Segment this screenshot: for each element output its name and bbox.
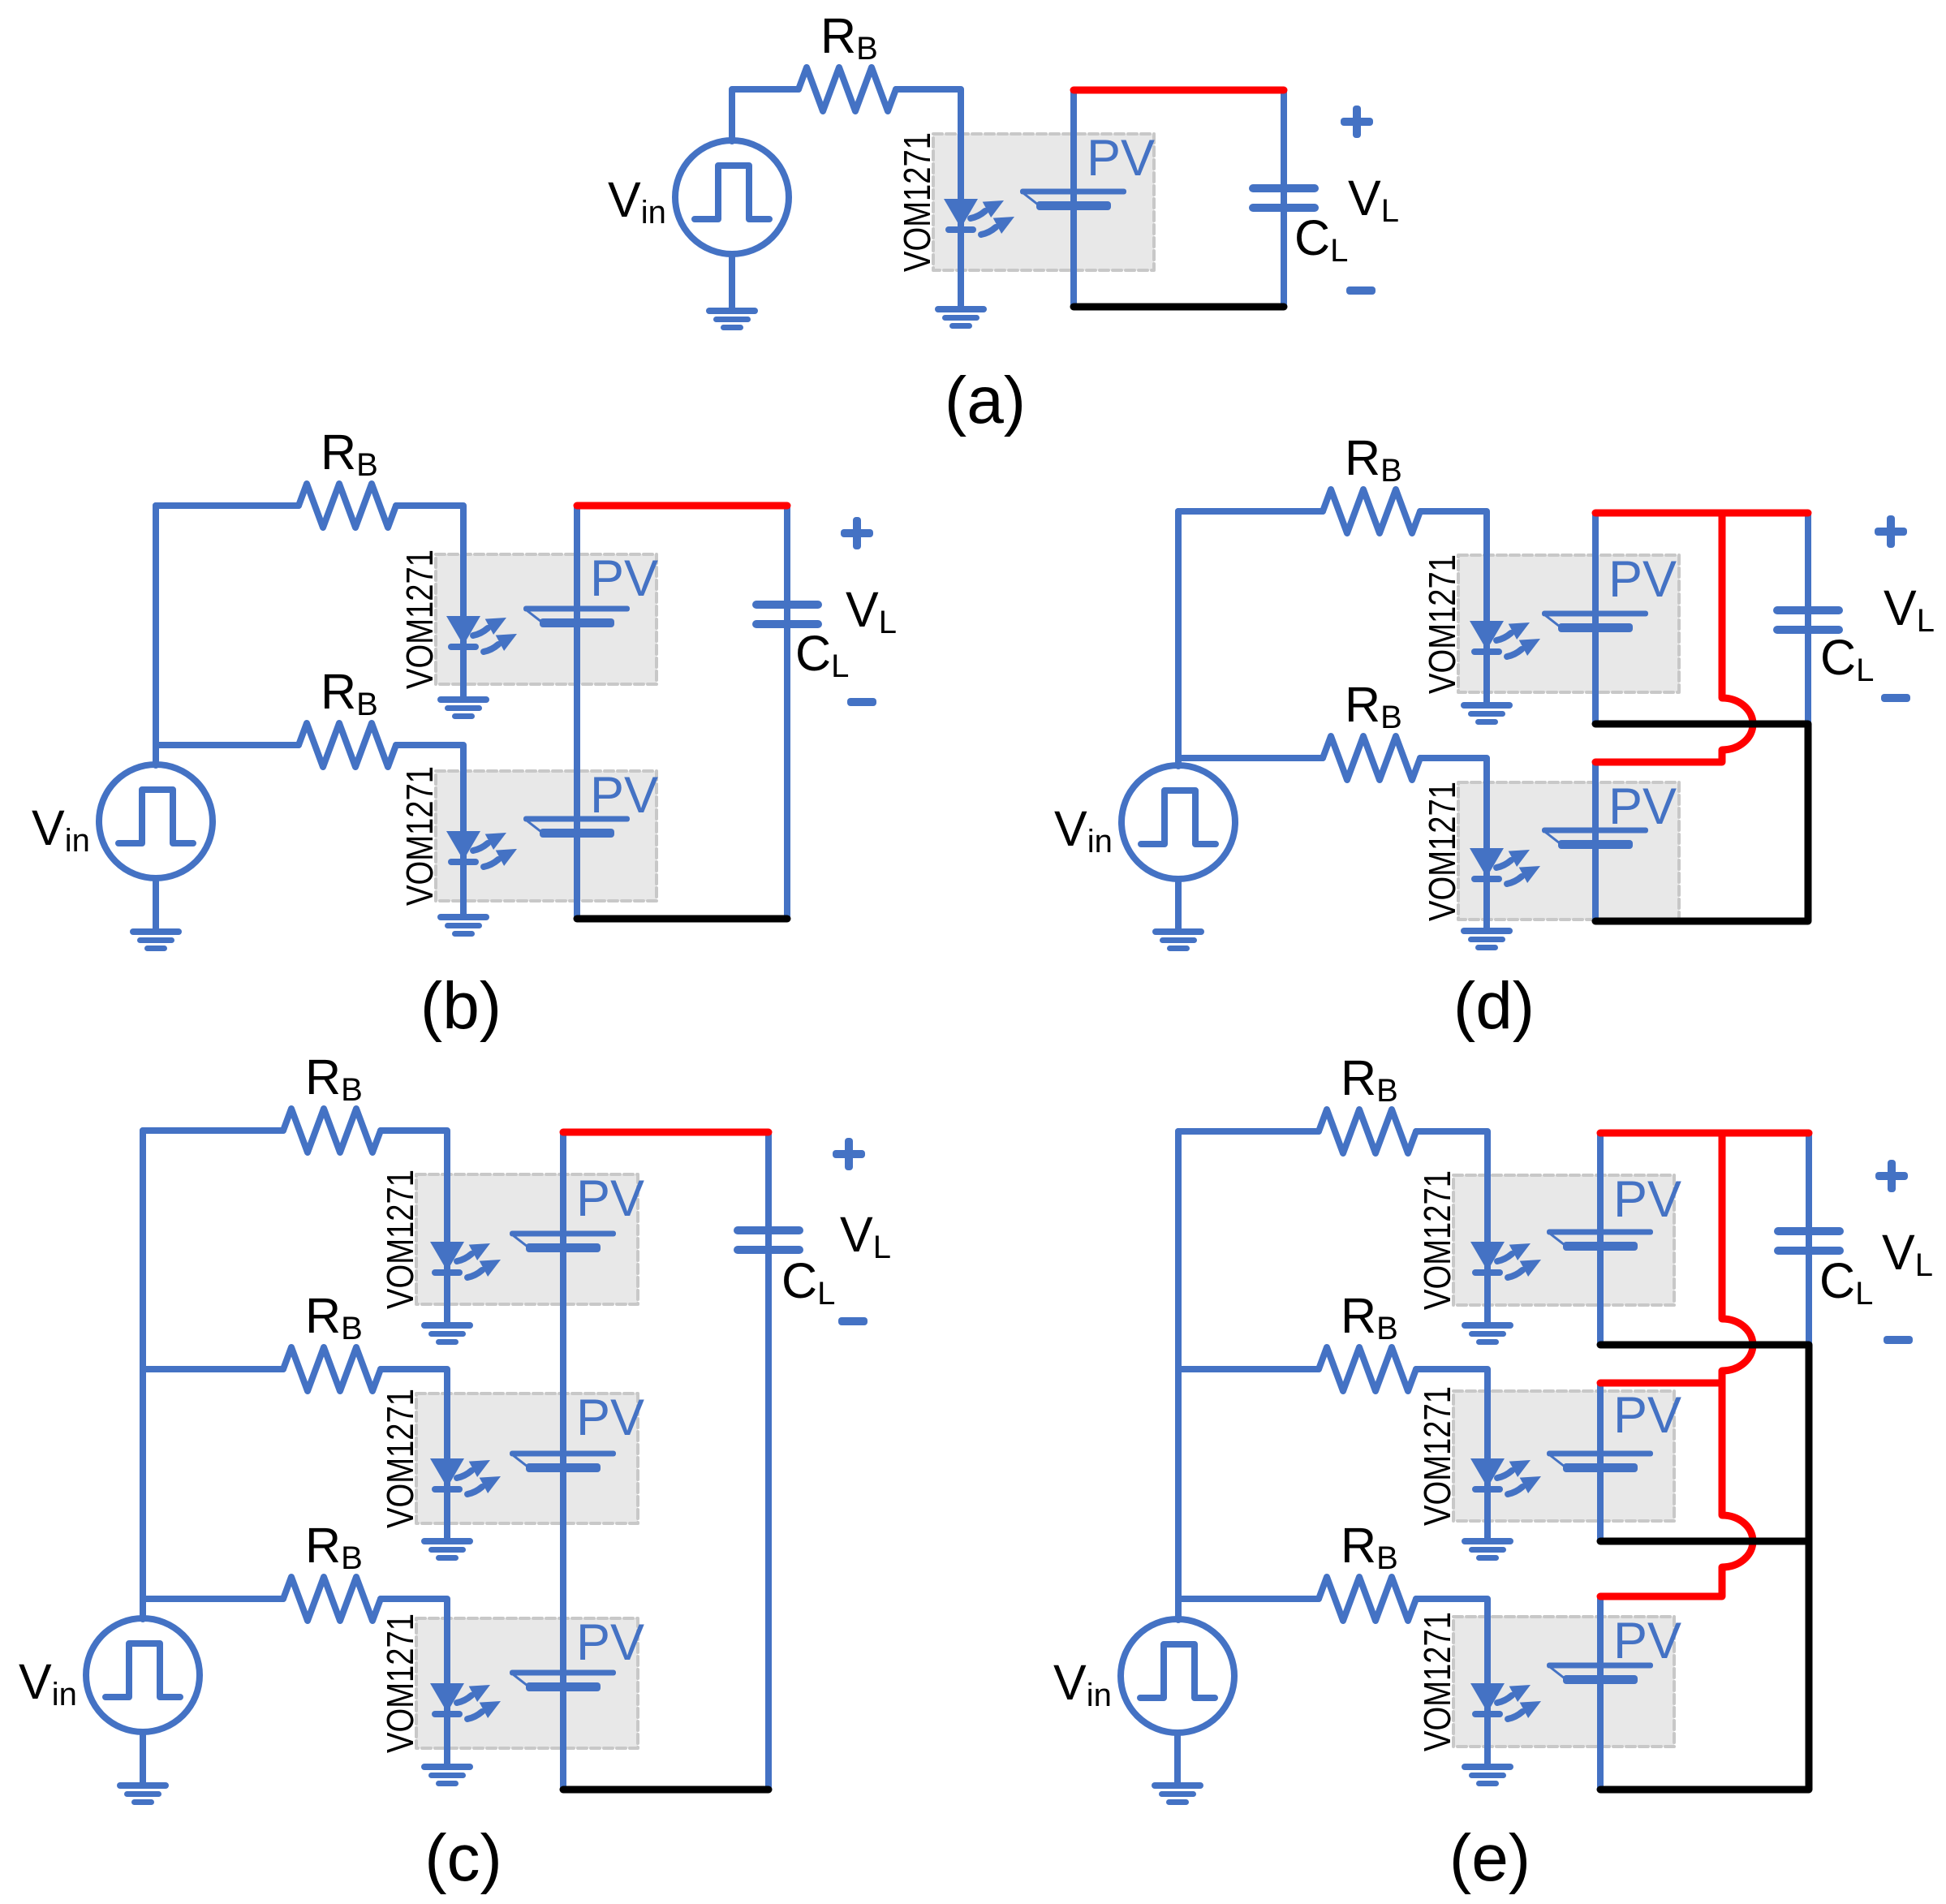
svg-text:VL: VL	[846, 582, 897, 640]
plus terminal (b)	[841, 517, 873, 549]
wire black negative rail (b)	[577, 915, 787, 923]
LED3 of VOM1271 (c)	[430, 1683, 501, 1719]
wire LED3 cathode (c)	[444, 1683, 450, 1764]
wire red crossover to PV3 (e)	[1600, 1383, 1753, 1596]
wire RB1 to LED1 (e)	[1416, 1131, 1487, 1242]
VOM1271 package box 1 (e)	[1453, 1175, 1674, 1305]
wire LED3 cathode (e)	[1484, 1683, 1491, 1764]
wire RB1 to LED1 (b)	[396, 506, 463, 616]
wire black negative rail (c)	[563, 1786, 768, 1794]
LED2 of VOM1271 (b)	[446, 831, 517, 867]
ground LED3 (e)	[1462, 1764, 1513, 1786]
svg-text:RB: RB	[1345, 430, 1402, 489]
svg-text:CL: CL	[795, 626, 849, 684]
minus terminal (d)	[1881, 694, 1910, 702]
plus terminal (e)	[1875, 1160, 1908, 1192]
circuit (e)	[1053, 1050, 1933, 1895]
ground LED1 (c)	[421, 1322, 473, 1345]
svg-text:RB: RB	[321, 664, 378, 722]
svg-text:(c): (c)	[424, 1821, 502, 1895]
wire branch1 lead (d)	[1178, 508, 1323, 515]
capacitor CL (c)	[734, 1226, 803, 1254]
LED1 of VOM1271 (b)	[446, 616, 517, 652]
ground Vin (e)	[1152, 1782, 1203, 1805]
svg-text:VOM1271: VOM1271	[379, 1613, 421, 1753]
resistor RB (a)	[799, 67, 896, 111]
wire branch3 lead (e)	[1178, 1596, 1319, 1602]
wire branch2 lead (e)	[1178, 1366, 1319, 1372]
VOM1271 package box 3 (c)	[416, 1618, 638, 1748]
svg-text:PV: PV	[1087, 130, 1155, 187]
VOM1271 package box 2 (c)	[416, 1394, 638, 1523]
wire left column (c)	[140, 1131, 146, 1619]
ground LED1 (e)	[1462, 1322, 1513, 1345]
wire branch2 lead (b)	[156, 742, 299, 748]
LED1 of VOM1271 (d)	[1470, 621, 1540, 657]
wire LED2 cathode (b)	[460, 831, 467, 914]
svg-text:RB: RB	[321, 424, 378, 483]
svg-text:VL: VL	[840, 1207, 891, 1265]
ground Vin (b)	[130, 928, 182, 951]
voltage source Vin (e)	[1121, 1619, 1234, 1733]
resistor RB3 (e)	[1319, 1577, 1416, 1621]
VOM1271 package box 1 (b)	[436, 554, 657, 684]
ground LED1 (d)	[1461, 702, 1513, 725]
wire Vin-c bottom lead	[140, 1732, 146, 1782]
LED of VOM1271 (a)	[944, 199, 1014, 235]
svg-text:VL: VL	[1348, 170, 1399, 229]
wire LED2 cathode (e)	[1484, 1458, 1491, 1538]
PV cell 1 (d)	[1542, 611, 1648, 633]
wire left column (b)	[153, 506, 159, 765]
svg-text:PV: PV	[576, 1389, 644, 1446]
wire red positive rail (d)	[1595, 510, 1808, 517]
VOM1271 package box 2 (d)	[1458, 782, 1679, 920]
wire branch1 lead (b)	[156, 502, 299, 509]
LED3 of VOM1271 (e)	[1470, 1683, 1541, 1719]
wire LED cathode (a)	[958, 199, 964, 306]
PV cell 1 (e)	[1547, 1230, 1653, 1251]
capacitor CL (b)	[752, 601, 822, 628]
voltage source Vin (d)	[1122, 765, 1235, 879]
wire RB1 to LED1 (c)	[381, 1131, 447, 1242]
wire left column (d)	[1175, 511, 1182, 766]
svg-text:RB: RB	[1345, 677, 1402, 735]
VOM1271 package box 3 (e)	[1453, 1617, 1674, 1747]
svg-text:Vin: Vin	[19, 1654, 77, 1712]
voltage source Vin (c)	[86, 1618, 200, 1732]
svg-text:VOM1271: VOM1271	[379, 1170, 421, 1309]
svg-text:PV: PV	[1613, 1171, 1681, 1228]
LED2 of VOM1271 (e)	[1470, 1458, 1541, 1494]
svg-text:CL: CL	[1820, 630, 1874, 688]
LED1 of VOM1271 (e)	[1470, 1242, 1541, 1277]
wire PV2 column (d)	[1592, 762, 1599, 921]
wire LED2 cathode (c)	[444, 1458, 450, 1538]
wire red positive rail (c)	[563, 1129, 768, 1136]
wire PV column (a)	[1070, 90, 1077, 307]
minus terminal (a)	[1346, 286, 1376, 295]
wire black negative bus (d)	[1595, 724, 1808, 921]
wire Vin-b bottom lead	[153, 878, 159, 928]
wire LED1 cathode (d)	[1483, 621, 1490, 702]
PV cell 2 (e)	[1547, 1451, 1653, 1473]
svg-text:RB: RB	[305, 1049, 363, 1108]
PV cell 2 (d)	[1542, 828, 1648, 850]
VOM1271 package box 2 (b)	[436, 771, 657, 901]
wire capacitor branch (a)	[1281, 90, 1287, 307]
wire RB2 to LED2 (d)	[1420, 758, 1487, 848]
minus terminal (e)	[1884, 1336, 1913, 1344]
circuit (b)	[32, 424, 897, 1043]
svg-text:(d): (d)	[1453, 969, 1535, 1043]
resistor RB3 (c)	[283, 1577, 381, 1621]
svg-text:(a): (a)	[945, 364, 1026, 437]
svg-text:VOM1271: VOM1271	[398, 766, 441, 906]
ground LED1 (b)	[437, 696, 489, 719]
svg-text:VOM1271: VOM1271	[379, 1389, 421, 1528]
plus terminal (d)	[1875, 515, 1907, 548]
wire capacitor branch (b)	[784, 506, 790, 919]
wire branch3 lead (c)	[143, 1596, 283, 1602]
resistor RB1 (e)	[1319, 1109, 1416, 1153]
wire Vin-e bottom lead	[1174, 1733, 1181, 1782]
resistor RB1 (d)	[1323, 489, 1420, 533]
wire black rail PV2 (e)	[1600, 1538, 1809, 1545]
wire red positive rail (e)	[1600, 1130, 1809, 1137]
voltage source Vin (a)	[675, 140, 789, 254]
wire LED2 cathode (d)	[1483, 848, 1490, 928]
capacitor CL (a)	[1249, 184, 1319, 212]
resistor RB2 (c)	[283, 1347, 381, 1391]
ground Vin (a)	[706, 308, 758, 330]
resistor RB1 (c)	[283, 1109, 381, 1152]
PV cell 2 (c)	[510, 1451, 616, 1473]
svg-text:RB: RB	[305, 1288, 363, 1346]
wire red positive rail (a)	[1074, 87, 1284, 94]
svg-text:Vin: Vin	[32, 800, 90, 859]
svg-text:VL: VL	[1884, 580, 1935, 639]
circuit (d)	[1054, 430, 1935, 1043]
ground LED3 (c)	[421, 1764, 473, 1786]
wire Vin-a bottom lead	[729, 254, 735, 308]
svg-text:Vin: Vin	[1053, 1655, 1112, 1713]
svg-text:PV: PV	[576, 1170, 644, 1227]
circuit (a)	[608, 8, 1399, 437]
wire PV1 column (d)	[1592, 513, 1599, 724]
ground LED2 (e)	[1462, 1538, 1513, 1561]
ground Vin (c)	[117, 1782, 169, 1805]
wire capacitor branch (e)	[1806, 1133, 1812, 1345]
ground LED2 (d)	[1461, 928, 1513, 950]
PV cell 1 (b)	[523, 606, 630, 628]
svg-text:CL: CL	[1294, 210, 1348, 269]
svg-text:(e): (e)	[1449, 1821, 1531, 1895]
svg-text:VOM1271: VOM1271	[1421, 554, 1463, 694]
svg-text:CL: CL	[1819, 1253, 1873, 1312]
svg-text:RB: RB	[305, 1518, 363, 1576]
voltage source Vin (b)	[99, 765, 213, 878]
svg-text:RB: RB	[1341, 1288, 1398, 1346]
ground Vin (d)	[1152, 928, 1204, 951]
svg-text:VL: VL	[1882, 1225, 1933, 1283]
wire RB2 to LED2 (b)	[396, 745, 463, 831]
LED2 of VOM1271 (c)	[430, 1458, 501, 1494]
PV cell 3 (e)	[1547, 1663, 1653, 1685]
capacitor CL (e)	[1774, 1227, 1844, 1255]
wire RB3 to LED3 (e)	[1416, 1599, 1487, 1683]
svg-text:CL: CL	[781, 1253, 835, 1312]
resistor RB2 (e)	[1319, 1347, 1416, 1391]
wire red positive rail (b)	[577, 502, 787, 510]
wire RB3 to LED3 (c)	[381, 1599, 447, 1683]
wire PV series column (b)	[574, 506, 580, 919]
svg-text:Vin: Vin	[1054, 801, 1113, 859]
svg-text:PV: PV	[1608, 551, 1677, 608]
resistor RB2 (d)	[1323, 736, 1420, 780]
wire LED1 cathode (b)	[460, 616, 467, 696]
wire PV3 column (e)	[1597, 1596, 1604, 1790]
LED2 of VOM1271 (d)	[1470, 848, 1540, 884]
svg-text:PV: PV	[576, 1614, 644, 1671]
svg-text:VOM1271: VOM1271	[896, 132, 938, 272]
wire branch2 lead (c)	[143, 1366, 283, 1372]
svg-text:PV: PV	[1613, 1613, 1681, 1669]
svg-text:Vin: Vin	[608, 172, 666, 230]
ground LED (a)	[935, 306, 987, 329]
wire LED1 cathode (e)	[1484, 1242, 1491, 1322]
VOM1271 package box 1 (d)	[1458, 555, 1679, 692]
svg-text:PV: PV	[590, 550, 658, 607]
svg-text:PV: PV	[1608, 778, 1677, 835]
wire red crossover to PV2 (d)	[1595, 513, 1753, 762]
wire black negative rail (a)	[1074, 304, 1284, 311]
wire Vin-a top lead	[732, 89, 799, 141]
wire RB2 to LED2 (e)	[1416, 1369, 1487, 1458]
wire PV1 column (e)	[1597, 1133, 1604, 1345]
wire PV series column (c)	[560, 1132, 566, 1790]
ground LED2 (c)	[421, 1538, 473, 1561]
wire Vin-d bottom lead	[1175, 879, 1182, 928]
PV cell 2 (b)	[523, 816, 630, 838]
wire branch1 lead (c)	[143, 1127, 283, 1134]
wire PV2 column (e)	[1597, 1383, 1604, 1541]
wire branch2 lead (d)	[1178, 755, 1323, 761]
wire red crossover to PV2 (e)	[1600, 1133, 1753, 1383]
svg-text:PV: PV	[1613, 1387, 1681, 1444]
minus terminal (b)	[847, 698, 876, 706]
wire LED1 cathode (c)	[444, 1242, 450, 1322]
ground LED2 (b)	[437, 914, 489, 937]
svg-text:VOM1271: VOM1271	[1421, 782, 1463, 921]
svg-text:VOM1271: VOM1271	[398, 549, 441, 689]
resistor RB1 (b)	[299, 484, 396, 528]
PV cell 3 (c)	[510, 1670, 616, 1692]
minus terminal (c)	[838, 1317, 868, 1325]
svg-text:RB: RB	[1341, 1518, 1398, 1576]
wire RB2 to LED2 (c)	[381, 1369, 447, 1458]
wire black negative bus (e)	[1600, 1345, 1809, 1790]
svg-text:VOM1271: VOM1271	[1416, 1612, 1458, 1751]
VOM1271 package box 1 (c)	[416, 1174, 638, 1304]
LED1 of VOM1271 (c)	[430, 1242, 501, 1277]
PV cell (a)	[1020, 189, 1126, 211]
plus terminal (c)	[833, 1138, 865, 1170]
wire RB to LED anode (a)	[896, 89, 961, 199]
capacitor CL (d)	[1773, 606, 1843, 634]
svg-text:RB: RB	[820, 8, 878, 67]
wire capacitor branch (c)	[765, 1132, 772, 1790]
circuit (c)	[19, 1049, 891, 1895]
svg-text:VOM1271: VOM1271	[1416, 1386, 1458, 1526]
svg-text:(b): (b)	[420, 969, 502, 1043]
wire left column (e)	[1175, 1131, 1182, 1620]
svg-text:RB: RB	[1341, 1050, 1398, 1109]
VOM1271 package box 2 (e)	[1453, 1391, 1674, 1521]
VOM1271 package box (a)	[933, 134, 1154, 270]
wire branch1 lead (e)	[1178, 1128, 1319, 1135]
wire capacitor branch (d)	[1805, 513, 1811, 724]
svg-text:PV: PV	[590, 767, 658, 824]
plus terminal (a)	[1341, 106, 1373, 138]
resistor RB2 (b)	[299, 723, 396, 767]
svg-text:VOM1271: VOM1271	[1416, 1170, 1458, 1310]
PV cell 1 (c)	[510, 1231, 616, 1253]
wire RB1 to LED1 (d)	[1420, 511, 1487, 621]
